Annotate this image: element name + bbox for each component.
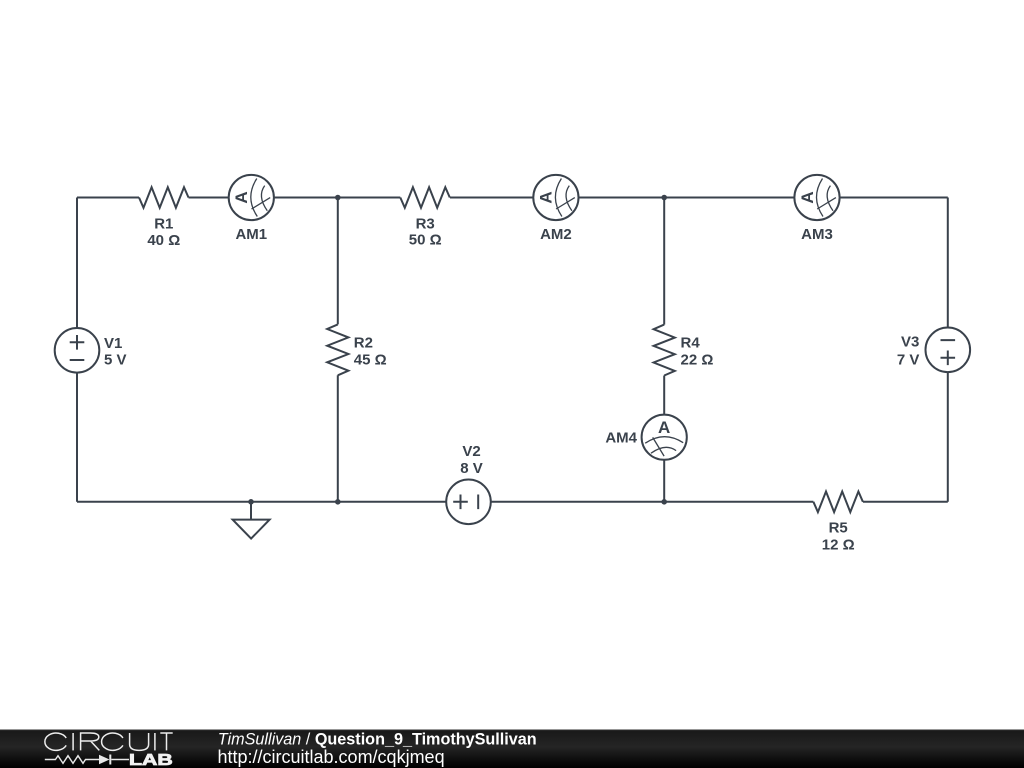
svg-text:45 Ω: 45 Ω xyxy=(354,351,387,368)
svg-text:40 Ω: 40 Ω xyxy=(147,232,180,249)
svg-text:AM1: AM1 xyxy=(235,226,267,243)
svg-text:5 V: 5 V xyxy=(104,352,127,369)
svg-text:R4: R4 xyxy=(681,334,701,351)
svg-text:AM2: AM2 xyxy=(540,226,572,243)
svg-text:http://circuitlab.com/cqkjmeq: http://circuitlab.com/cqkjmeq xyxy=(218,747,445,767)
svg-text:TimSullivan / Question_9_Timot: TimSullivan / Question_9_TimothySullivan xyxy=(218,730,537,748)
svg-text:V1: V1 xyxy=(104,335,122,352)
svg-text:50 Ω: 50 Ω xyxy=(409,232,442,249)
svg-text:22 Ω: 22 Ω xyxy=(681,351,714,368)
svg-text:V2: V2 xyxy=(462,443,480,460)
svg-text:AM4: AM4 xyxy=(605,430,637,447)
svg-text:R3: R3 xyxy=(416,215,435,232)
svg-text:R2: R2 xyxy=(354,335,373,352)
svg-text:LAB: LAB xyxy=(129,752,173,768)
svg-text:V3: V3 xyxy=(901,334,919,351)
svg-text:7 V: 7 V xyxy=(897,351,920,368)
svg-text:R1: R1 xyxy=(154,216,173,233)
svg-text:12 Ω: 12 Ω xyxy=(822,536,855,553)
svg-text:8 V: 8 V xyxy=(460,460,483,477)
svg-text:AM3: AM3 xyxy=(801,226,833,243)
svg-text:R5: R5 xyxy=(829,520,848,537)
